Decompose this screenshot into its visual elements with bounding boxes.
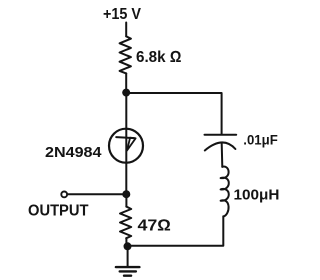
svg-text:100μH: 100μH bbox=[234, 187, 280, 203]
svg-text:.01μF: .01μF bbox=[243, 131, 278, 147]
svg-text:2N4984: 2N4984 bbox=[45, 144, 102, 161]
svg-text:+15 V: +15 V bbox=[103, 6, 142, 23]
svg-text:OUTPUT: OUTPUT bbox=[28, 202, 89, 219]
svg-text:47Ω: 47Ω bbox=[138, 218, 172, 235]
svg-text:6.8k Ω: 6.8k Ω bbox=[136, 49, 182, 66]
